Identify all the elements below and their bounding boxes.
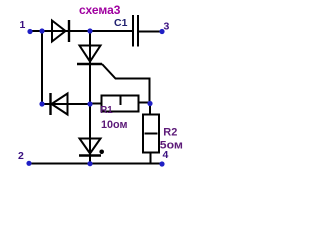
wire R1 left lead	[90, 103, 102, 105]
wire gate of upper thyristor	[102, 64, 150, 104]
svg-text:5ом: 5ом	[160, 139, 183, 151]
wire left rail	[41, 31, 43, 104]
thyristor VS1 (upper)	[77, 46, 102, 65]
svg-text:C1: C1	[114, 17, 128, 29]
diode D1 top	[52, 20, 69, 42]
diode D2 left (pointing left)	[51, 93, 68, 115]
junction dot top-left	[39, 28, 44, 33]
wire middle horizontal (through left diode)	[42, 103, 90, 105]
node 3 dot	[159, 29, 164, 34]
wire bottom rail	[29, 163, 162, 165]
resistor R1	[102, 96, 139, 112]
wire top right (C1 to node 3)	[139, 31, 163, 33]
wire top rail	[30, 30, 132, 32]
thyristor VS2 (lower)	[79, 139, 104, 156]
svg-text:R1: R1	[100, 104, 113, 116]
junction dot R1-R2	[147, 101, 152, 106]
node 2 dot	[26, 161, 31, 166]
wire R2 bottom lead	[150, 152, 152, 164]
node 1 dot	[27, 29, 32, 34]
capacitor C1	[133, 15, 138, 47]
svg-text:2: 2	[18, 150, 24, 162]
wire R2 top lead	[149, 104, 151, 116]
svg-text:3: 3	[164, 21, 170, 33]
svg-text:1: 1	[20, 19, 26, 31]
resistor R2	[143, 115, 159, 153]
junction dot bottom-center	[87, 161, 92, 166]
junction dot top-center	[87, 28, 92, 33]
svg-text:R2: R2	[163, 127, 177, 139]
junction dot center-diode	[87, 101, 92, 106]
wire center rail	[89, 31, 91, 164]
node 4 dot	[159, 161, 164, 166]
svg-text:10ом: 10ом	[101, 119, 128, 131]
wire R1 right lead	[139, 102, 150, 104]
junction dot left-diode	[39, 101, 44, 106]
svg-text:схема3: схема3	[79, 3, 121, 17]
